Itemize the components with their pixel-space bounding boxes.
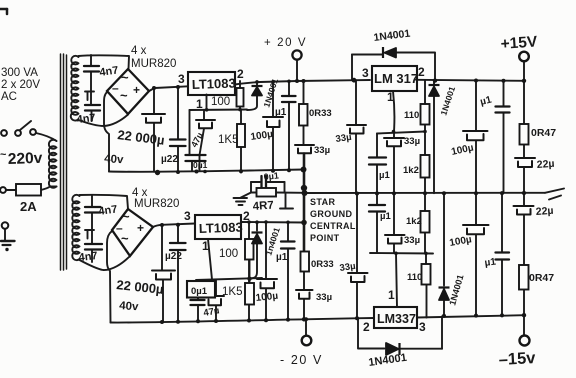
svg-text:MUR820: MUR820 bbox=[134, 198, 179, 210]
svg-text:µ1: µ1 bbox=[484, 256, 497, 269]
svg-text:4R7: 4R7 bbox=[252, 200, 274, 213]
svg-text:3: 3 bbox=[178, 72, 185, 86]
svg-text:1: 1 bbox=[202, 239, 209, 253]
svg-text:+: + bbox=[133, 83, 140, 97]
svg-text:1k2: 1k2 bbox=[403, 165, 419, 176]
svg-text:~: ~ bbox=[0, 149, 7, 161]
svg-text:4 x: 4 x bbox=[131, 45, 147, 57]
svg-text:100: 100 bbox=[219, 248, 238, 260]
svg-text:GROUND: GROUND bbox=[310, 209, 352, 219]
svg-text:2: 2 bbox=[363, 320, 370, 334]
svg-text:CENTRAL: CENTRAL bbox=[310, 221, 356, 231]
svg-text:0µ1: 0µ1 bbox=[193, 160, 208, 170]
svg-text:0R47: 0R47 bbox=[529, 272, 554, 284]
svg-text:µ1: µ1 bbox=[380, 211, 391, 222]
svg-text:+: + bbox=[137, 221, 144, 235]
svg-text:1k2: 1k2 bbox=[406, 216, 422, 227]
svg-text:1K5: 1K5 bbox=[222, 286, 242, 298]
svg-text:2: 2 bbox=[237, 67, 244, 81]
svg-text:µ1: µ1 bbox=[379, 170, 390, 181]
svg-text:110: 110 bbox=[404, 110, 419, 121]
svg-text:33µ: 33µ bbox=[335, 132, 352, 145]
svg-text:220v: 220v bbox=[8, 150, 43, 168]
svg-text:0µ1: 0µ1 bbox=[191, 286, 208, 297]
svg-text:40v: 40v bbox=[119, 300, 140, 313]
svg-text:–: – bbox=[112, 81, 119, 95]
svg-text:LT1083: LT1083 bbox=[199, 219, 243, 236]
svg-text:3: 3 bbox=[419, 320, 426, 334]
svg-text:300 VA: 300 VA bbox=[1, 67, 38, 79]
svg-text:2 x 20V: 2 x 20V bbox=[1, 79, 40, 91]
svg-text:33µ: 33µ bbox=[404, 235, 420, 246]
svg-text:33µ: 33µ bbox=[339, 261, 356, 274]
svg-text:1: 1 bbox=[388, 288, 395, 302]
svg-text:LM 317: LM 317 bbox=[374, 71, 418, 86]
svg-text:110: 110 bbox=[407, 272, 422, 283]
svg-text:4n7: 4n7 bbox=[76, 112, 96, 126]
svg-text:33µ: 33µ bbox=[316, 292, 332, 303]
svg-text:µ22: µ22 bbox=[165, 251, 182, 262]
svg-text:1: 1 bbox=[196, 97, 203, 111]
svg-text:2A: 2A bbox=[20, 199, 37, 214]
svg-text:0R33: 0R33 bbox=[309, 108, 332, 119]
svg-text:0R33: 0R33 bbox=[311, 259, 334, 270]
svg-text:1K5: 1K5 bbox=[218, 134, 238, 146]
svg-text:LM337: LM337 bbox=[377, 312, 416, 326]
svg-text:µ22: µ22 bbox=[161, 154, 178, 165]
svg-text:1: 1 bbox=[387, 90, 394, 104]
svg-text:2: 2 bbox=[418, 65, 425, 79]
svg-text:~: ~ bbox=[121, 231, 129, 246]
svg-text:22µ: 22µ bbox=[536, 158, 555, 171]
svg-text:~: ~ bbox=[122, 209, 130, 224]
svg-text:AC: AC bbox=[1, 91, 17, 103]
svg-text:- 20 V: - 20 V bbox=[280, 353, 323, 367]
svg-text:100: 100 bbox=[211, 96, 230, 108]
svg-text:MUR820: MUR820 bbox=[131, 58, 176, 70]
svg-text:µ1: µ1 bbox=[275, 107, 287, 118]
svg-text:+15V: +15V bbox=[500, 33, 538, 53]
svg-text:2: 2 bbox=[243, 209, 250, 223]
svg-text:22µ: 22µ bbox=[535, 205, 554, 218]
svg-text:4n7: 4n7 bbox=[78, 250, 98, 264]
svg-text:0R47: 0R47 bbox=[531, 127, 556, 139]
svg-text:~: ~ bbox=[121, 70, 129, 85]
svg-text:33µ: 33µ bbox=[404, 136, 420, 147]
svg-text:+ 20 V: + 20 V bbox=[264, 37, 307, 49]
svg-text:LT1083: LT1083 bbox=[192, 75, 236, 92]
svg-text:~: ~ bbox=[120, 88, 128, 103]
svg-text:POINT: POINT bbox=[310, 233, 340, 243]
svg-text:–15v: –15v bbox=[498, 349, 536, 369]
svg-text:3: 3 bbox=[184, 209, 191, 223]
svg-text:µ1: µ1 bbox=[276, 252, 288, 263]
svg-text:3: 3 bbox=[362, 66, 369, 80]
svg-text:33µ: 33µ bbox=[314, 145, 330, 156]
svg-text:0µ1: 0µ1 bbox=[263, 170, 279, 182]
svg-text:40v: 40v bbox=[104, 153, 125, 166]
svg-text:STAR: STAR bbox=[310, 197, 336, 207]
